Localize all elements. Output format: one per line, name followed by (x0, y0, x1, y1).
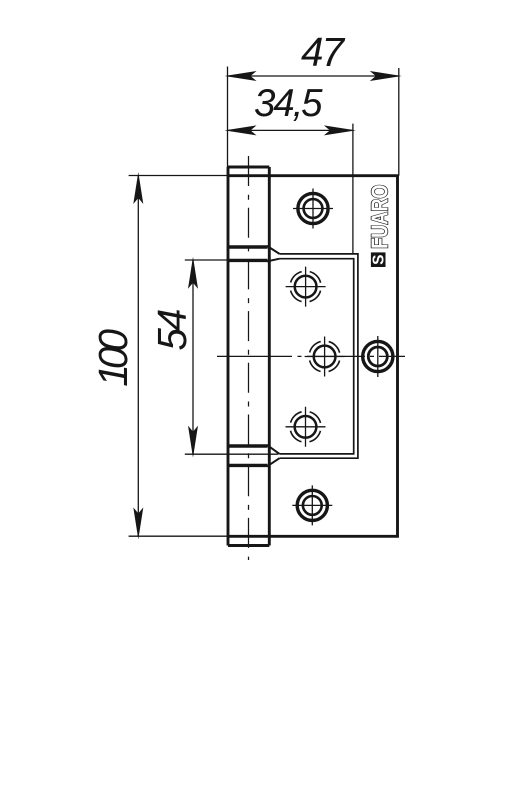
svg-text:S: S (371, 255, 388, 265)
svg-text:47: 47 (301, 29, 345, 75)
svg-text:100: 100 (90, 328, 136, 386)
svg-text:34,5: 34,5 (254, 82, 323, 125)
svg-text:FUARO: FUARO (367, 185, 393, 249)
svg-text:54: 54 (149, 309, 195, 351)
